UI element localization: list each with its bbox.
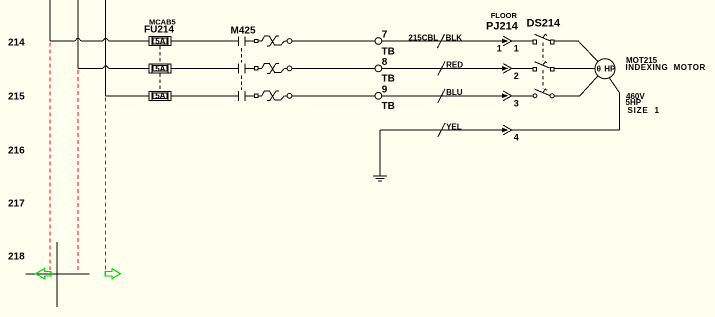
svg-text:7: 7 bbox=[382, 30, 388, 41]
terminal TB pin 9 bbox=[375, 84, 395, 112]
svg-text:SIZE 1: SIZE 1 bbox=[628, 106, 660, 115]
svg-text:TB: TB bbox=[382, 46, 395, 57]
svg-text:9: 9 bbox=[382, 84, 388, 95]
svg-text:214: 214 bbox=[8, 38, 25, 49]
svg-text:TB: TB bbox=[382, 74, 395, 85]
svg-text:2: 2 bbox=[514, 71, 519, 81]
wire disconnect B to motor bbox=[554, 67, 595, 69]
wire contactor C to overload C bbox=[245, 95, 255, 97]
ground symbol bbox=[373, 176, 387, 181]
overload heater pole B bbox=[255, 63, 292, 73]
svg-text:FU214: FU214 bbox=[144, 25, 174, 36]
wire label slash row C bbox=[438, 89, 445, 103]
wire phase C unconnected (red dashed) bbox=[105, 97, 107, 270]
wire phase B unconnected (red dashed) bbox=[77, 70, 79, 272]
wire fuse C to contactor bbox=[171, 95, 238, 97]
svg-text:BLK: BLK bbox=[446, 33, 463, 42]
svg-text:5A: 5A bbox=[155, 64, 165, 73]
disconnect linkage dashed bbox=[542, 43, 544, 89]
disconnect DS214 pole A bbox=[533, 34, 554, 44]
contactor M425 pole A bbox=[238, 36, 245, 46]
wire plug 1 to disconnect A bbox=[512, 40, 533, 42]
svg-text:216: 216 bbox=[8, 145, 25, 156]
ground stem wire bbox=[379, 130, 381, 176]
wire label slash row B bbox=[438, 61, 445, 75]
wire terminal 9 to plug pin 3 bbox=[382, 95, 503, 97]
wire L2 bus vertical bbox=[77, 0, 79, 68]
svg-text:BLU: BLU bbox=[446, 88, 463, 97]
wire disconnect C to motor (horizontal) bbox=[554, 95, 580, 97]
svg-text:FLOOR: FLOOR bbox=[491, 11, 518, 20]
svg-text:RED: RED bbox=[446, 61, 463, 70]
overload heater pole C bbox=[255, 91, 292, 101]
wire ground rung left of plug 4 bbox=[380, 129, 503, 131]
fuse linkage dashed bbox=[159, 46, 161, 91]
svg-text:215CBL: 215CBL bbox=[408, 33, 438, 42]
connector PJ214 pin 1 bbox=[497, 36, 519, 54]
wire fuse B to contactor bbox=[171, 67, 238, 69]
wire overload A to terminal 7 bbox=[292, 40, 375, 42]
wire disconnect A to motor (horizontal) bbox=[554, 40, 578, 42]
wire motor frame diagonal bbox=[609, 78, 619, 93]
disconnect DS214 pole C bbox=[533, 89, 554, 98]
wire terminal 7 to plug pin 1 bbox=[382, 40, 503, 42]
wire overload B to terminal 8 bbox=[292, 67, 375, 69]
svg-text:3: 3 bbox=[514, 99, 519, 109]
svg-text:5A: 5A bbox=[155, 92, 165, 101]
connector PJ214 pin 2 bbox=[502, 64, 519, 82]
contactor M425 pole C bbox=[238, 91, 245, 101]
wire overload C to terminal 9 bbox=[292, 95, 375, 97]
contactor linkage dashed bbox=[241, 48, 243, 90]
disconnect DS214 pole B bbox=[533, 61, 554, 71]
fuse FU214 pole C 5A bbox=[149, 91, 171, 100]
wire plug 2 to disconnect B bbox=[512, 67, 533, 69]
svg-text:218: 218 bbox=[8, 252, 25, 263]
motor MOT215 bbox=[595, 59, 616, 79]
connector PJ214 pin 4 bbox=[502, 125, 519, 143]
wire rung phase B with crossover hop bbox=[78, 66, 149, 69]
svg-text:TB: TB bbox=[382, 101, 395, 112]
svg-text:θ: θ bbox=[597, 65, 601, 74]
svg-text:INDEXING MOTOR: INDEXING MOTOR bbox=[626, 63, 706, 72]
wire contactor B to overload B bbox=[245, 67, 255, 69]
wire rung phase C bbox=[106, 95, 149, 97]
terminal TB pin 7 bbox=[375, 30, 395, 58]
wire L1 bus vertical bbox=[49, 0, 51, 41]
svg-text:YEL: YEL bbox=[446, 122, 462, 131]
svg-text:215: 215 bbox=[8, 91, 25, 102]
wire label slash row ground bbox=[438, 123, 445, 137]
svg-text:5A: 5A bbox=[155, 37, 165, 46]
wire L3 bus vertical bbox=[105, 0, 107, 96]
crosshair marker horizontal bbox=[26, 273, 90, 275]
wire rung 214 phase A with crossover hops bbox=[50, 38, 149, 41]
svg-text:1: 1 bbox=[497, 44, 502, 54]
svg-text:DS214: DS214 bbox=[527, 17, 562, 29]
wire ground rung right of plug 4 bbox=[512, 129, 620, 131]
wire disconnect A to motor (diagonal) bbox=[578, 41, 598, 62]
source arrow left (green) bbox=[36, 269, 51, 279]
contactor M425 pole B bbox=[238, 64, 245, 74]
wire contactor A to overload A bbox=[245, 40, 255, 42]
wire fuse A to contactor bbox=[171, 40, 238, 42]
wire phase A unconnected (red dashed) bbox=[49, 43, 51, 271]
svg-text:8: 8 bbox=[382, 57, 388, 68]
wire motor frame vertical bbox=[619, 93, 621, 130]
crosshair marker vertical bbox=[56, 242, 58, 307]
wire terminal 8 to plug pin 2 bbox=[382, 67, 503, 69]
wire plug 3 to disconnect C bbox=[512, 95, 533, 97]
fuse FU214 pole A 5A bbox=[149, 37, 171, 46]
svg-text:HP: HP bbox=[604, 65, 616, 74]
terminal TB pin 8 bbox=[375, 57, 395, 85]
svg-text:1: 1 bbox=[514, 44, 519, 54]
fuse FU214 pole B 5A bbox=[149, 64, 171, 73]
connector PJ214 pin 3 bbox=[502, 91, 519, 109]
svg-text:PJ214: PJ214 bbox=[486, 20, 519, 32]
overload heater pole A bbox=[255, 36, 292, 46]
source arrow right (green) bbox=[105, 269, 120, 279]
wire disconnect C to motor (diagonal) bbox=[580, 76, 598, 96]
svg-text:M425: M425 bbox=[231, 26, 256, 37]
svg-text:217: 217 bbox=[8, 198, 25, 209]
svg-text:4: 4 bbox=[514, 133, 519, 143]
wire label slash row 214 bbox=[437, 34, 444, 48]
